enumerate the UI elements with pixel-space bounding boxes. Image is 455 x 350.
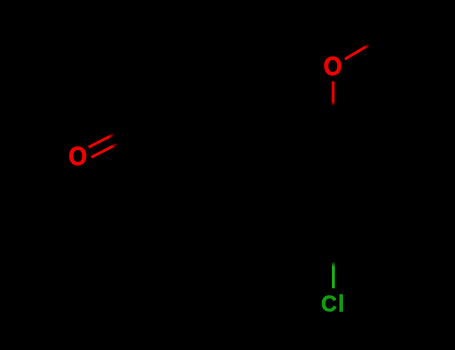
methoxy O-CH3 bond, red half (345, 45, 370, 60)
methoxy O-ring bond, red half (332, 81, 335, 106)
carbonyl C=O double bond, red halves (89, 134, 115, 147)
chain wire: ring to carbonyl carbon (135, 126, 283, 155)
benzene ring (black on black) (284, 126, 383, 240)
ring inner double bonds (290, 134, 377, 233)
carbonyl C=O double bond, black halves (115, 125, 133, 134)
chloro C-Cl bond, green half (332, 262, 335, 289)
svg-text:O: O (68, 143, 87, 171)
methoxy O-ring bond, black half (332, 106, 335, 126)
methoxy O-CH3 bond, black half (370, 33, 390, 45)
svg-text:O: O (323, 53, 342, 81)
svg-text:Cl: Cl (321, 290, 345, 317)
chloro C-Cl bond, black half (332, 240, 335, 262)
